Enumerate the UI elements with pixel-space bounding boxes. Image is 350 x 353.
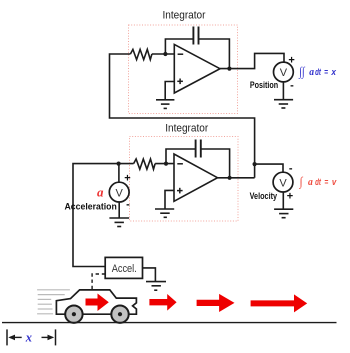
svg-text:∫: ∫ (299, 174, 304, 189)
svg-text:a: a (309, 66, 314, 78)
wire R2 to U2 inverting input (155, 163, 174, 165)
svg-text:dt: dt (315, 177, 321, 188)
svg-text:Velocity: Velocity (250, 191, 278, 201)
wire: U1 + input to ground (165, 82, 174, 100)
resistor R1 (130, 49, 152, 59)
node: U1 output junction (227, 67, 231, 71)
wire: junction up to capacitor C2 (166, 149, 196, 164)
U1 inverting pin mark (178, 53, 184, 55)
capacitor C1 (193, 27, 198, 45)
ground (velocity meter) (274, 209, 293, 218)
node: bottom cap tap junction (164, 162, 168, 166)
car body (56, 290, 136, 314)
wheel front (111, 306, 128, 323)
wheel rear (65, 306, 82, 323)
ground (position meter) (274, 100, 293, 108)
ground (acceleration meter) (109, 218, 129, 227)
speed lines (37, 290, 70, 314)
wire: U2 output to velocity node (218, 177, 255, 179)
svg-text:a: a (97, 185, 104, 200)
wire: tap down to acceleration meter (118, 164, 120, 183)
svg-text:=: = (324, 67, 328, 78)
wire: junction up to capacitor C1 (165, 39, 193, 54)
op-amp U1 (174, 44, 220, 93)
svg-text:-: - (126, 199, 130, 211)
svg-text:V: V (279, 177, 287, 189)
node: U2 output junction (228, 176, 232, 180)
svg-text:=: = (325, 177, 329, 188)
voltmeter V acceleration (109, 182, 129, 202)
wire: U2 + input to ground (165, 190, 174, 209)
dimension left tick (6, 329, 8, 345)
svg-text:V: V (280, 67, 288, 79)
svg-text:-: - (289, 163, 293, 175)
svg-text:Acceleration: Acceleration (65, 201, 117, 211)
svg-text:-: - (290, 80, 294, 92)
svg-text:+: + (287, 191, 293, 203)
svg-text:+: + (124, 173, 130, 185)
ground (U2 + input) (155, 209, 174, 217)
accelerometer box Accel. (105, 257, 142, 278)
svg-text:x: x (25, 330, 32, 344)
wire: velocity node to position integrator input (left feedback loop) (110, 54, 255, 178)
node: velocity tap junction (253, 162, 257, 166)
arrow 3 (red) (197, 294, 235, 312)
U2 inverting pin mark (177, 163, 183, 165)
resistor R2 (134, 159, 156, 169)
dimension left arrow (10, 336, 22, 338)
dimension right arrow (42, 336, 53, 338)
svg-text:x: x (331, 67, 337, 78)
arrow 4 (red) (251, 294, 308, 312)
equation: double integral a dt = x (blue) (298, 64, 336, 79)
svg-text:dt: dt (315, 67, 321, 78)
dashed link accel box to car (92, 274, 105, 291)
wire R1 to U1 inverting input (152, 53, 174, 55)
voltmeter V position (274, 62, 294, 82)
wire: C1 to U1 output (199, 39, 230, 69)
ground (U1 + input) (156, 100, 174, 109)
arrow on car (red) (86, 294, 109, 312)
svg-text:+: + (288, 55, 294, 67)
svg-text:Accel.: Accel. (112, 263, 137, 275)
op-amp U2 (174, 154, 218, 201)
svg-text:v: v (332, 177, 337, 188)
integrator dashed box 2 (130, 137, 239, 222)
integrator dashed box 1 (129, 25, 238, 114)
node: top cap tap junction (163, 52, 167, 56)
svg-text:V: V (116, 187, 124, 199)
wire: acceleration input line (73, 164, 134, 267)
node: acceleration meter tap (117, 162, 121, 166)
wire: acceleration meter to ground (118, 202, 120, 218)
arrow 2 (red) (149, 294, 176, 311)
wire: C2 to U2 output (201, 149, 230, 178)
U2 non-inverting pin mark (177, 188, 183, 194)
svg-text:Integrator: Integrator (163, 10, 206, 22)
svg-text:a: a (308, 176, 313, 188)
equation: integral a dt = v (red) (299, 174, 337, 189)
ground (accel box) (146, 282, 166, 291)
voltmeter V velocity (273, 172, 293, 192)
dimension right tick (55, 329, 57, 345)
capacitor C2 (196, 140, 201, 158)
wire: accel box to ground (143, 268, 156, 282)
wire: U1 output to position meter (220, 53, 284, 68)
svg-text:Position: Position (250, 80, 278, 90)
wire: position meter to ground (282, 82, 284, 100)
U1 non-inverting pin mark (177, 79, 183, 85)
svg-text:∫∫: ∫∫ (298, 64, 305, 79)
wire: velocity meter to ground (282, 192, 284, 209)
road (2, 322, 337, 324)
svg-text:Integrator: Integrator (165, 123, 208, 135)
wire: velocity tap to velocity meter (255, 164, 283, 172)
